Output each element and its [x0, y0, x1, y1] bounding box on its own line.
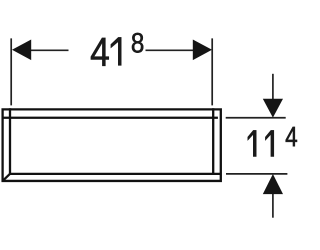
width dimension line right segment	[146, 49, 196, 51]
height extension line bottom	[226, 173, 287, 175]
cabinet outer outline	[1, 108, 222, 182]
height extension line top	[226, 117, 286, 119]
width arrowhead left	[12, 40, 31, 61]
height value 1 (second)	[265, 130, 273, 156]
height value 1 (first)	[248, 130, 256, 156]
width value 1	[111, 37, 121, 65]
width dimension line left segment	[28, 49, 69, 51]
height dimension line upper	[272, 74, 274, 100]
width extension line left	[10, 38, 12, 105]
height superscript 4	[286, 127, 297, 146]
height arrowhead down	[263, 99, 283, 118]
width superscript 8	[132, 33, 143, 53]
height arrowhead up	[263, 174, 283, 194]
height dimension line lower	[272, 194, 274, 218]
width arrowhead right	[193, 40, 212, 61]
cabinet inner outline	[3, 108, 221, 174]
bottom-left miter edge	[3, 174, 10, 181]
width value 4	[91, 38, 109, 66]
width extension line right	[211, 38, 213, 105]
